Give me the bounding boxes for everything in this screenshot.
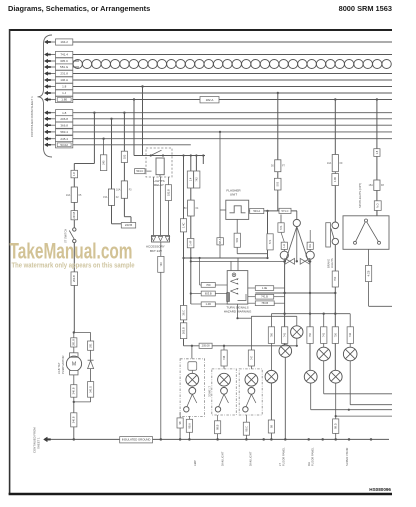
- wire label box 583.4: [56, 129, 73, 135]
- connector box on flasher bottom leg: [234, 233, 240, 247]
- wire net 1.8: [73, 86, 392, 88]
- connector box above lamp G: [307, 327, 313, 344]
- wire lamp G exit right: [310, 383, 312, 410]
- svg-text:8000 SRM 1563: 8000 SRM 1563: [339, 4, 392, 13]
- svg-text:The watermark only appears on: The watermark only appears on this sampl…: [12, 263, 135, 270]
- wire label box 503.A: [250, 208, 264, 213]
- svg-text:1.80: 1.80: [61, 98, 67, 102]
- svg-text:15A: 15A: [369, 184, 374, 187]
- wire drop x377 to spotlight switch: [376, 100, 378, 149]
- wire drop x111 to fuse F2: [111, 119, 113, 189]
- node pump motor feed: [73, 331, 75, 333]
- svg-text:BRAKE: BRAKE: [327, 259, 331, 268]
- wire net 245.4: [73, 138, 392, 140]
- LH indicator arrow lamp: [285, 258, 295, 264]
- wire drop x277 to fuse F7: [277, 93, 279, 160]
- svg-text:182: 182: [122, 154, 126, 159]
- connector box on x183 lower: [180, 323, 186, 339]
- wire net 206.8: [73, 118, 392, 120]
- svg-text:4.CB: 4.CB: [367, 270, 371, 276]
- lamp F rear: [265, 370, 278, 383]
- svg-text:24V.B: 24V.B: [125, 223, 132, 227]
- fuse F5 10A: [71, 187, 77, 202]
- connector box diode branch lower: [88, 382, 94, 398]
- svg-text:98.B: 98.B: [216, 424, 220, 430]
- node on net 1.J at x277: [277, 92, 279, 94]
- wire dome2 leg to ground: [217, 415, 219, 421]
- connector box 1.4F: [187, 239, 194, 248]
- svg-text:F7: F7: [282, 165, 285, 168]
- svg-text:340.B: 340.B: [72, 416, 76, 423]
- connector box on hazard leg: [267, 234, 273, 250]
- svg-text:245.4: 245.4: [60, 137, 68, 141]
- wire relay to accessory strip leg 2: [160, 177, 162, 236]
- wire label box 182.A on net 1.80: [200, 97, 219, 103]
- wire label box 146.A: [56, 77, 73, 83]
- svg-text:1.8: 1.8: [62, 111, 67, 115]
- connector box 750 brake: [332, 271, 338, 287]
- connector arrow row 206.8 lower group: [45, 117, 51, 121]
- svg-text:CAB TILT: CAB TILT: [57, 362, 61, 374]
- connector box under fuse F9: [332, 174, 339, 186]
- connector box under lamp F: [268, 420, 274, 433]
- svg-text:98.D: 98.D: [334, 423, 338, 429]
- svg-text:10A: 10A: [66, 194, 71, 197]
- brake switch actuator box: [326, 223, 331, 247]
- lamp C front LH: [317, 347, 331, 361]
- svg-text:182.A: 182.A: [206, 98, 214, 102]
- wire brake feed to lamp H: [334, 287, 336, 370]
- wire stub into flasher left: [220, 209, 226, 211]
- wire net 1.8: [73, 112, 392, 114]
- wire label box 231.8: [56, 70, 73, 76]
- svg-text:741.B: 741.B: [261, 295, 268, 299]
- wire fuse F3 to accessory label: [123, 198, 125, 216]
- svg-text:742: 742: [195, 177, 199, 182]
- fuse F8: [374, 180, 380, 190]
- node motor diode join: [73, 401, 75, 403]
- continuation arrow to sheet 1 bottom: [44, 437, 51, 442]
- svg-text:740: 740: [159, 262, 163, 267]
- flasher unit U1 box: [226, 200, 249, 219]
- svg-text:F2: F2: [116, 196, 119, 199]
- lights relay coil label box: [135, 169, 145, 174]
- wire label box LH: [281, 242, 287, 249]
- connector box 263.B: [71, 272, 78, 286]
- wire RH feed down to lamp: [309, 261, 311, 370]
- hazard switch pilot circle: [232, 273, 236, 277]
- schematic frame border: [10, 29, 392, 31]
- svg-text:503: 503: [276, 181, 280, 186]
- svg-text:341.D: 341.D: [89, 386, 93, 393]
- wire drop x335 to fuse F9: [334, 100, 336, 155]
- svg-text:750: 750: [308, 332, 312, 337]
- svg-text:98.C: 98.C: [244, 426, 248, 432]
- connector box on x183 upper: [180, 219, 186, 232]
- wire to key switch: [73, 202, 75, 210]
- wire dome1 leg b to ground: [188, 416, 190, 419]
- svg-text:245: 245: [102, 160, 106, 165]
- insulated ground bus wire: [51, 438, 389, 440]
- svg-text:741: 741: [322, 332, 326, 337]
- wire label box 741.B: [255, 294, 273, 299]
- lights relay coil: [156, 158, 164, 175]
- svg-text:N.O: N.O: [376, 203, 380, 208]
- node on net 1.8 at x94: [93, 112, 95, 114]
- svg-text:F4: F4: [196, 207, 199, 210]
- connector box on dome light 3 feed: [248, 350, 254, 366]
- svg-text:10A: 10A: [116, 189, 121, 192]
- svg-text:581.G: 581.G: [60, 65, 69, 69]
- wire motor to node: [73, 375, 75, 385]
- svg-text:50: 50: [184, 207, 187, 210]
- ground bus nodes: [73, 438, 76, 441]
- LH indicator contact circle: [280, 251, 288, 259]
- wire label box 750.B: [255, 301, 274, 306]
- svg-text:1.4C: 1.4C: [181, 222, 185, 228]
- wire feed dome light 1: [191, 346, 193, 359]
- double frame on label 1.80: [57, 98, 71, 102]
- connector arrow row 53.02 lower group: [45, 143, 51, 147]
- svg-text:RH: RH: [307, 462, 311, 466]
- svg-text:281: 281: [89, 343, 93, 348]
- hazard bus wire y258: [184, 257, 268, 259]
- wire flasher node down to hazard bus: [267, 211, 269, 258]
- wire label box 53.02: [56, 142, 73, 148]
- hazard switch contact pair 2: [230, 288, 238, 291]
- connector box above lamp F: [268, 327, 274, 344]
- indicator center stem wire: [296, 227, 298, 262]
- fuse F4 on x190: [188, 200, 195, 216]
- wire drop x134 to lights relay: [133, 98, 135, 100]
- svg-text:146.A: 146.A: [60, 78, 68, 82]
- svg-text:741.4: 741.4: [60, 53, 68, 57]
- wire lamp F to ground bus: [270, 383, 272, 439]
- wire label box 366.8: [56, 122, 73, 128]
- wire label box 245.4: [56, 136, 73, 142]
- connector box motor ground: [71, 413, 77, 427]
- wire net 231.8: [73, 73, 392, 75]
- svg-text:LT: LT: [278, 463, 282, 466]
- node on net 1.80 at x335: [334, 98, 336, 100]
- wire net 583.4: [73, 131, 392, 133]
- turn signal hazard switch S2 box: [227, 271, 248, 305]
- indicator triangle: [285, 227, 308, 262]
- svg-text:281.B: 281.B: [72, 339, 76, 346]
- connector arrow row 305.C: [45, 59, 51, 63]
- svg-text:1.J: 1.J: [62, 91, 67, 95]
- svg-text:746: 746: [222, 355, 226, 360]
- svg-text:1.4: 1.4: [188, 177, 192, 181]
- wire label box 305.C: [56, 58, 73, 64]
- fuse F2 15A: [108, 189, 114, 205]
- svg-text:571.C: 571.C: [282, 209, 289, 213]
- wire net 305.C: [73, 60, 79, 62]
- svg-text:F3: F3: [129, 189, 132, 192]
- svg-text:DAN LIGHT: DAN LIGHT: [221, 451, 225, 466]
- connector box diode branch upper: [88, 341, 94, 350]
- connector box on LH feed: [278, 223, 284, 233]
- flasher bottom leg wire: [236, 219, 238, 253]
- svg-text:LIGHTS: LIGHTS: [330, 258, 334, 268]
- connector arrow row 146.A: [45, 78, 51, 82]
- svg-text:1.8: 1.8: [375, 150, 379, 154]
- svg-text:DAN LIGHT: DAN LIGHT: [249, 451, 253, 466]
- lights relay contact wire: [134, 155, 205, 157]
- key switch ST contacts: [73, 228, 76, 231]
- connector arrow row 741.4: [45, 53, 51, 57]
- lamp H brake: [329, 370, 342, 383]
- connector box above lamp B: [282, 327, 288, 344]
- wire strip leg 3 with connector box: [167, 177, 169, 185]
- svg-text:194.2: 194.2: [60, 40, 68, 44]
- wire label box RH: [307, 242, 313, 249]
- svg-text:1.4E: 1.4E: [262, 286, 268, 290]
- wire net 741.4: [73, 54, 392, 56]
- svg-text:769: 769: [206, 283, 211, 287]
- lamp D front RH: [343, 347, 357, 361]
- node on net 206.8: [110, 118, 112, 120]
- svg-text:206.8: 206.8: [60, 117, 68, 121]
- wire label box 603.B: [201, 291, 215, 296]
- svg-text:FLOOR PANEL: FLOOR PANEL: [311, 447, 315, 466]
- svg-text:1.8: 1.8: [72, 172, 76, 176]
- wire drop x142 to lights relay: [142, 87, 144, 156]
- lamp G RH turn: [304, 370, 317, 383]
- connector box on x183 mid: [180, 306, 186, 320]
- lights relay K1 dashed enclosure: [146, 148, 172, 177]
- connector arrow row 581.G: [45, 65, 51, 69]
- wire feed x196 from relay output: [195, 156, 197, 172]
- svg-text:504.C: 504.C: [136, 169, 143, 173]
- wire label box 1.80: [56, 96, 73, 102]
- wire relay to accessory strip leg 1: [153, 177, 155, 236]
- dome light assembly 2 dashed box: [212, 369, 237, 415]
- connector box above lamp D: [347, 327, 353, 344]
- connector box 24V.B left: [71, 211, 78, 220]
- svg-text:603.B: 603.B: [205, 291, 212, 295]
- wire lamp H exit right and ground: [335, 383, 337, 419]
- svg-text:SHEET 1: SHEET 1: [36, 437, 40, 449]
- wire lamp C exit right: [323, 361, 325, 394]
- wire main feed x190 down to hazard switch: [190, 156, 192, 305]
- wire strip to connector 160: [160, 242, 162, 256]
- svg-text:RH: RH: [308, 244, 312, 248]
- connector arrow row 1.8: [45, 85, 51, 89]
- fuse F9 boxes: [332, 155, 338, 172]
- svg-text:750: 750: [333, 276, 337, 281]
- wire lamp C feed: [323, 314, 325, 347]
- wire label box 1.8: [56, 110, 73, 116]
- wire left branch upper: [73, 164, 75, 171]
- node on net 1.8 at x124: [123, 112, 125, 114]
- connector box above lamp C: [321, 327, 327, 344]
- label box INSULATED GROUND: [120, 437, 153, 443]
- lights relay contact lever: [151, 150, 162, 155]
- pump motor M1: [70, 353, 78, 357]
- connector box on dome light 2 feed: [221, 350, 227, 366]
- svg-text:760: 760: [269, 332, 273, 337]
- wire net 366.8: [73, 124, 392, 126]
- wire lamp F feed: [270, 314, 272, 371]
- connector box 182 on x124: [121, 151, 127, 162]
- svg-text:98.A: 98.A: [218, 238, 222, 244]
- accessory terminal strip BKT: [152, 236, 170, 243]
- svg-text:263.B: 263.B: [72, 275, 76, 282]
- svg-text:PUMP MOTOR: PUMP MOTOR: [61, 356, 65, 374]
- wire fuse F2 to accessory bus: [111, 205, 113, 223]
- wire net 581.G: [73, 66, 79, 68]
- connector arrow row 366.8 lower group: [45, 123, 51, 127]
- wire into hazard switch top: [230, 261, 232, 270]
- svg-text:263.B: 263.B: [182, 327, 186, 334]
- node on net 245.4 at x103: [102, 138, 104, 140]
- svg-text:503: 503: [235, 238, 239, 243]
- wire lamp D feed: [349, 314, 351, 347]
- svg-text:Diagrams, Schematics, or Arran: Diagrams, Schematics, or Arrangements: [8, 4, 150, 13]
- dome light assembly 1 dashed box: [180, 359, 205, 417]
- wire main feed x183 down: [183, 156, 185, 346]
- wire drop x124 to fuse F3: [123, 113, 125, 152]
- svg-text:INSULATED GROUND: INSULATED GROUND: [122, 438, 151, 442]
- diode D1: [88, 361, 94, 369]
- connector box under lamp H: [333, 419, 339, 434]
- wire motor branch to ground bus: [73, 402, 75, 440]
- svg-text:305.C: 305.C: [60, 59, 69, 63]
- wire net 194.2: [73, 41, 392, 43]
- connector arrow row 231.8: [45, 72, 51, 76]
- connector arrow row 194.2: [45, 40, 51, 44]
- svg-text:F8: F8: [381, 184, 384, 187]
- wire motor branch upper: [73, 333, 75, 338]
- svg-text:571: 571: [268, 239, 272, 244]
- wire net 1.J: [73, 92, 392, 94]
- node flasher output: [266, 210, 268, 212]
- svg-text:205.08: 205.08: [202, 344, 210, 348]
- fuse F3 10A: [121, 181, 127, 198]
- connector box on x377 top: [374, 149, 380, 157]
- svg-text:231.8: 231.8: [60, 72, 68, 76]
- svg-text:571: 571: [279, 225, 283, 230]
- hazard switch inner wire: [238, 294, 247, 301]
- brake switch contacts: [332, 222, 339, 229]
- wire x124 segment: [123, 163, 125, 181]
- svg-text:1.80: 1.80: [333, 176, 337, 182]
- svg-text:F5: F5: [79, 194, 82, 197]
- wire stub x203 from relay output: [202, 156, 204, 165]
- svg-text:340.B: 340.B: [72, 387, 76, 394]
- connector box on x103 drop: [100, 155, 106, 171]
- spotlight switch S3 box: [343, 216, 389, 250]
- svg-text:583.4: 583.4: [60, 130, 68, 134]
- wire net 1.80: [73, 99, 392, 101]
- svg-text:HS080096: HS080096: [369, 487, 391, 492]
- connector arrow row 1.J: [45, 91, 51, 95]
- connector box under fuse F7: [274, 178, 281, 190]
- wire lamp B to ground bus: [284, 357, 286, 439]
- connector box on x190: [187, 171, 193, 188]
- RH indicator arrow lamp: [300, 258, 310, 264]
- svg-text:366.8: 366.8: [60, 123, 68, 127]
- wire label box 1.8: [56, 83, 73, 89]
- twisted pair harness 305.C / 581.G: [73, 60, 391, 69]
- node under RH arrow: [309, 260, 312, 263]
- svg-text:BKT 24V: BKT 24V: [150, 249, 162, 253]
- wire label box 741.4: [56, 51, 73, 57]
- wire hazard switch bottom leg: [237, 304, 239, 318]
- connector box above lamp H: [332, 327, 338, 344]
- svg-text:182.B: 182.B: [166, 189, 170, 196]
- svg-text:50: 50: [271, 165, 274, 168]
- svg-text:53.02: 53.02: [60, 143, 68, 147]
- wire key switch to pump motor node: [73, 243, 75, 333]
- connector box on strip output: [158, 256, 164, 272]
- wire label box 1.4D: [201, 302, 215, 307]
- wire y345 feed: [184, 345, 297, 347]
- svg-text:1.4F: 1.4F: [189, 240, 193, 246]
- dome light assembly 3 dashed box: [239, 369, 262, 415]
- fuse F7 50A: [275, 160, 281, 172]
- wire lamp D exit right: [349, 361, 351, 405]
- wire to diode branch: [74, 332, 91, 334]
- svg-text:M: M: [72, 362, 76, 368]
- wire label box 1.4E: [255, 286, 273, 291]
- svg-text:FLOOR PANEL: FLOOR PANEL: [282, 447, 286, 466]
- horn circle of indicator cluster: [293, 219, 300, 226]
- lamp B LH turn: [279, 345, 292, 358]
- wire label box 769: [201, 283, 215, 288]
- continuation brace CONTINUED FROM SHEET 1: [38, 35, 53, 157]
- hazard switch contact pair 1: [230, 279, 238, 282]
- double frame on label 53.02: [57, 143, 71, 147]
- svg-text:742: 742: [348, 332, 352, 337]
- svg-text:24V.B: 24V.B: [72, 212, 76, 219]
- node on net 1.J at x142: [141, 85, 143, 87]
- wire drop x103 to connector: [103, 139, 105, 155]
- svg-text:F9: F9: [340, 162, 343, 165]
- wire lamp A bottom: [296, 338, 298, 346]
- wire label box 206.8: [56, 116, 73, 122]
- wire brake switch down: [334, 245, 336, 271]
- svg-text:1.8: 1.8: [62, 85, 67, 89]
- connector arrow row 583.4 lower group: [45, 130, 51, 134]
- distribution wire y293: [255, 292, 335, 294]
- hazard bus wire y261: [191, 260, 285, 262]
- wire label box 1.J: [56, 90, 73, 96]
- distribution wire y313.7: [271, 313, 350, 315]
- connector box 1.8 on left branch: [71, 170, 78, 178]
- node under LH arrow: [283, 260, 286, 263]
- svg-text:SPOTLIGHTS (OPT): SPOTLIGHTS (OPT): [358, 183, 362, 208]
- hazard switch inner connector: [227, 293, 230, 302]
- svg-text:10A: 10A: [327, 162, 332, 165]
- svg-text:SUPER VISOR: SUPER VISOR: [345, 448, 349, 466]
- label box 24V.B accessory: [121, 223, 135, 229]
- svg-text:TakeManual.com: TakeManual.com: [10, 239, 133, 264]
- svg-text:98.A: 98.A: [187, 423, 191, 429]
- wire x277 continuation to LH: [280, 215, 282, 223]
- wire label box 571.C: [279, 208, 291, 213]
- connector box 98.A: [217, 238, 224, 245]
- node relay output x190: [190, 154, 192, 156]
- svg-text:1.4D: 1.4D: [206, 302, 212, 306]
- flasher output wire 503.A: [249, 210, 297, 212]
- wire switch leg to pilot lamp: [251, 315, 296, 317]
- wire spotlight switch bottom leg: [368, 249, 370, 265]
- connector arrow row 1.8 lower group: [45, 111, 51, 115]
- wire label box 581.G: [56, 64, 73, 70]
- connector box motor lower: [71, 385, 77, 398]
